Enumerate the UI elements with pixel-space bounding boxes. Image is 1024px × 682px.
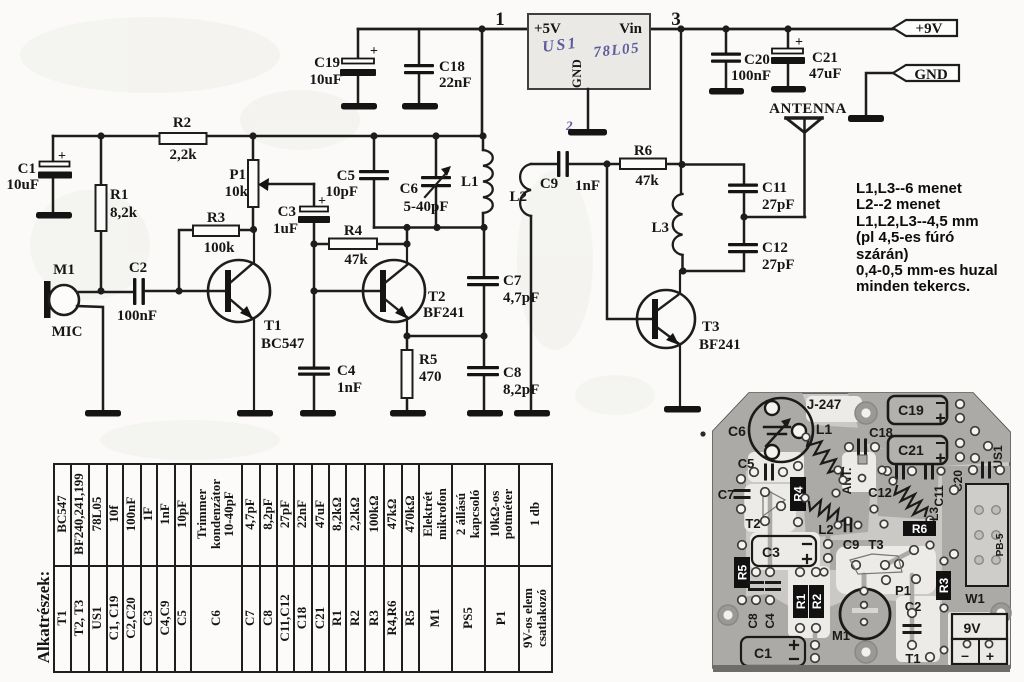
table cell ref P1	[484, 565, 518, 671]
svg-text:C11: C11	[932, 485, 946, 507]
PCB mounting hole near 9V	[991, 603, 1011, 623]
PCB capacitor C5	[766, 465, 773, 479]
ground US1	[568, 129, 607, 136]
table cell value 100nF	[122, 463, 140, 565]
table cell value 8,2kohm	[328, 463, 345, 565]
transistor T3 BF241	[637, 290, 695, 348]
terminal +9V	[893, 20, 957, 36]
svg-text:M1: M1	[53, 262, 75, 278]
svg-text:C7: C7	[503, 273, 522, 289]
node C11/C12/antenna junction	[740, 213, 747, 220]
resistor R5	[406, 336, 409, 350]
svg-text:–: –	[961, 647, 969, 663]
svg-text:C5: C5	[337, 168, 355, 184]
svg-text:C8: C8	[503, 365, 521, 381]
table row divider	[53, 565, 551, 567]
coil winding notes text	[856, 181, 1024, 296]
table cell value 10f	[106, 463, 122, 565]
svg-text:+: +	[370, 44, 378, 59]
wire US1 GND pin	[587, 89, 590, 130]
table cell ref C8	[259, 565, 276, 671]
svg-text:C2: C2	[129, 260, 147, 276]
PCB capacitor C3 footprint	[752, 536, 816, 566]
ground T1 emitter	[237, 410, 273, 417]
PCB scattered pads	[870, 505, 878, 513]
wire +5V lower rail	[53, 135, 483, 138]
PCB microphone M1 footprint	[840, 589, 890, 639]
ground L2	[514, 410, 550, 417]
table cell value 47kohm	[383, 463, 401, 565]
node T2 base junction	[310, 287, 317, 294]
wire M1 to ground	[77, 306, 103, 410]
svg-text:+: +	[795, 35, 803, 50]
svg-text:C1: C1	[18, 161, 36, 177]
svg-text:C12: C12	[762, 240, 788, 256]
potentiometer P1	[249, 132, 256, 139]
svg-text:T2: T2	[428, 289, 446, 305]
svg-text:L1: L1	[461, 174, 479, 190]
table cell value 27pF	[276, 463, 293, 565]
node T2 emitter junction	[403, 332, 410, 339]
stray mark left of board	[700, 431, 705, 436]
svg-text:5-40pF: 5-40pF	[404, 199, 449, 215]
inductor L3	[673, 194, 683, 255]
wire C5/C6/L1 bottom bus	[374, 226, 484, 229]
wire T2 emitter to C7/C8	[407, 335, 484, 338]
svg-text:C20: C20	[744, 52, 770, 68]
svg-text:R5: R5	[419, 352, 437, 368]
ground C8	[467, 410, 503, 417]
node 1	[478, 25, 485, 32]
svg-text:47uF: 47uF	[809, 66, 842, 82]
table cell value 22nF	[293, 463, 311, 565]
wire +5V top rail from C19 corner to US1 input	[358, 28, 528, 31]
svg-text:T3: T3	[868, 537, 883, 552]
table cell ref US1	[88, 565, 106, 671]
table cell ref C5	[174, 565, 190, 671]
PCB board outline	[713, 393, 1010, 668]
svg-text:J-247: J-247	[807, 397, 842, 412]
svg-text:T3: T3	[702, 319, 720, 335]
table cell value Elektret mikrofon	[418, 463, 451, 565]
wire Vin rail from US1 to +9V terminal	[650, 28, 895, 31]
resistor R3	[179, 230, 193, 291]
svg-text:L3: L3	[651, 220, 669, 236]
svg-text:C18: C18	[439, 59, 465, 75]
table cell value 2 allasu kapcsolo	[451, 463, 484, 565]
PCB resistor R2	[809, 585, 824, 618]
svg-text:BF241: BF241	[423, 305, 465, 321]
svg-text:R1: R1	[110, 187, 128, 203]
svg-text:1nF: 1nF	[337, 380, 362, 396]
node R1/M1/C2 junction	[97, 287, 104, 294]
svg-text:P1: P1	[229, 167, 246, 183]
svg-text:C6: C6	[728, 423, 746, 439]
svg-text:C9: C9	[843, 537, 860, 552]
svg-text:R4: R4	[344, 223, 363, 239]
table cell value 2,2kohm	[345, 463, 364, 565]
svg-text:10k: 10k	[225, 184, 249, 200]
transistor T1 BC547	[208, 260, 270, 322]
PCB trimmer C6 footprint	[749, 398, 813, 462]
svg-text:+9V: +9V	[916, 21, 943, 37]
node P1/R3/T1 collector junction	[250, 226, 257, 233]
voltage regulator US1 78L05	[528, 14, 650, 89]
table cell value 8,2pF	[259, 463, 276, 565]
svg-text:1: 1	[495, 9, 505, 30]
table cell value 10pF	[174, 463, 190, 565]
svg-text:10pF: 10pF	[325, 184, 358, 200]
PCB trace segments	[740, 479, 745, 600]
svg-text:C11: C11	[762, 180, 787, 196]
svg-text:C19: C19	[898, 402, 924, 418]
svg-text:C3: C3	[762, 544, 780, 560]
table cell ref R4,R6	[383, 565, 401, 671]
table cell ref R1	[328, 565, 345, 671]
PCB copper pour patches	[713, 393, 812, 472]
svg-text:3: 3	[671, 9, 681, 30]
capacitor C11	[728, 184, 758, 187]
table cell value Trimmer kondenzator 10-40pF	[190, 463, 241, 565]
PCB capacitor C18	[859, 440, 866, 454]
capacitor C9	[531, 163, 557, 166]
svg-text:10uF: 10uF	[6, 177, 39, 193]
PCB capacitor C1 footprint	[741, 637, 805, 666]
table cell ref R5	[401, 565, 418, 671]
ground M1	[85, 410, 121, 417]
inductor L2	[520, 164, 531, 216]
PCB inductor L3	[895, 486, 928, 516]
capacitor C21	[784, 25, 791, 32]
table cell ref C1, C19	[106, 565, 122, 671]
capacitor C1	[52, 136, 55, 162]
PCB resistor R6	[903, 521, 936, 536]
svg-text:1uF: 1uF	[273, 221, 298, 237]
svg-text:R3: R3	[207, 210, 225, 226]
svg-text:L2: L2	[509, 189, 527, 205]
ground C20	[709, 88, 744, 95]
table cell value 10kohm-os potmeter	[484, 463, 518, 565]
table cell ref C11,C12	[276, 565, 293, 671]
table cell ref C3	[140, 565, 156, 671]
capacitor C2	[133, 278, 136, 305]
svg-text:470: 470	[419, 369, 442, 385]
svg-text:100k: 100k	[204, 240, 236, 256]
capacitor C3	[313, 184, 316, 207]
svg-text:L2: L2	[818, 522, 833, 537]
terminal GND	[893, 65, 959, 81]
PCB mounting hole top	[855, 402, 877, 424]
table cell ref PS5	[451, 565, 484, 671]
table cell ref C18	[293, 565, 311, 671]
table cell ref C21	[311, 565, 328, 671]
svg-text:R1: R1	[794, 594, 808, 610]
resistor R1	[97, 132, 104, 139]
svg-text:C9: C9	[540, 176, 558, 192]
svg-text:27pF: 27pF	[762, 257, 795, 273]
svg-text:R6: R6	[634, 143, 653, 159]
ground of GND terminal	[848, 115, 884, 122]
svg-text:T1: T1	[905, 651, 920, 666]
table cell value 1 db	[518, 463, 551, 565]
capacitor C12	[743, 217, 746, 243]
table cell value 78L05	[88, 463, 106, 565]
svg-text:L3: L3	[927, 507, 941, 521]
table cell ref 9V-os elem csatlakozo	[518, 565, 551, 671]
svg-text:C19: C19	[314, 55, 340, 71]
PCB capacitor C11	[926, 464, 933, 478]
svg-text:US1: US1	[991, 445, 1005, 469]
table cell ref M1	[418, 565, 451, 671]
svg-text:8,2k: 8,2k	[110, 205, 138, 221]
svg-text:L1: L1	[816, 421, 833, 437]
PCB inductor L1	[807, 437, 843, 477]
node R3 base junction	[175, 287, 182, 294]
svg-text:P1: P1	[895, 583, 911, 598]
svg-text:C8: C8	[746, 613, 760, 629]
svg-text:100nF: 100nF	[117, 308, 157, 324]
node R4/T2 collector junction	[403, 240, 410, 247]
ground C18	[402, 103, 438, 110]
microphone M1	[44, 281, 51, 318]
svg-text:R2: R2	[810, 594, 824, 610]
PCB bottom edge shadow	[713, 665, 1010, 672]
svg-text:8,2pF: 8,2pF	[503, 382, 539, 398]
PCB inductor L2	[809, 500, 844, 524]
svg-text:C4: C4	[763, 613, 777, 629]
svg-text:1nF: 1nF	[575, 178, 600, 194]
table cell ref C6	[190, 565, 241, 671]
P1 wiper arrow	[266, 183, 314, 186]
wire T3 base	[607, 164, 652, 319]
svg-text:C3: C3	[278, 204, 296, 220]
svg-text:4,7pF: 4,7pF	[503, 290, 539, 306]
wire node1 down to lower rail	[481, 29, 484, 136]
svg-text:9V: 9V	[963, 620, 981, 636]
svg-text:2,2k: 2,2k	[169, 147, 197, 163]
trimmer capacitor C6	[432, 132, 439, 139]
svg-text:M1: M1	[832, 628, 850, 643]
node C3/R4 junction	[310, 240, 317, 247]
node C7/C8 junction	[480, 332, 487, 339]
svg-text:R6: R6	[912, 522, 928, 536]
PCB clear areas	[748, 452, 804, 482]
svg-text:R3: R3	[937, 578, 951, 594]
scan mottling	[20, 17, 655, 460]
capacitor C7	[483, 228, 486, 277]
parts table "Alkatrészek"	[53, 463, 553, 673]
svg-text:C21: C21	[898, 442, 924, 458]
capacitor C5	[370, 132, 377, 139]
svg-text:BC547: BC547	[261, 336, 305, 352]
PCB mounting hole bottom-left	[718, 605, 738, 625]
PCB resistor R3	[936, 571, 951, 600]
node C9/R6/T3 base junction	[603, 160, 610, 167]
wire tank top to C11	[682, 165, 744, 185]
PCB capacitor C19 footprint	[888, 396, 947, 424]
svg-text:C4: C4	[337, 363, 356, 379]
PCB resistor R5	[734, 557, 750, 588]
svg-text:10uF: 10uF	[309, 72, 342, 88]
PCB capacitor C21 footprint	[888, 436, 947, 464]
capacitor C18	[418, 29, 421, 64]
PCB capacitor C9	[845, 519, 851, 531]
table cell value 47uF	[311, 463, 328, 565]
PCB switch PS5 footprint	[966, 484, 1008, 586]
svg-text:W1: W1	[965, 591, 985, 606]
inductor L1	[479, 132, 486, 139]
svg-text:27pF: 27pF	[762, 197, 795, 213]
svg-text:R5: R5	[735, 565, 749, 581]
svg-text:R2: R2	[173, 115, 191, 131]
capacitor C8	[483, 336, 486, 366]
PCB mounting hole bottom-middle	[855, 641, 877, 663]
table cell value 1F	[140, 463, 156, 565]
PCB capacitor C2	[904, 626, 920, 633]
table cell value 100kohm	[364, 463, 383, 565]
table cell ref C2,C20	[122, 565, 140, 671]
ground C1	[36, 212, 72, 219]
svg-text:C21: C21	[812, 50, 838, 66]
PCB resistor R4	[790, 477, 806, 511]
ground R5	[390, 410, 426, 417]
table cell ref R2	[345, 565, 364, 671]
svg-text:100nF: 100nF	[731, 68, 771, 84]
table cell ref C4,C9	[156, 565, 174, 671]
wire C3 to T2 base and C4	[313, 244, 316, 367]
svg-text:MIC: MIC	[52, 324, 83, 340]
svg-text:47k: 47k	[344, 252, 368, 268]
svg-text:C12: C12	[868, 485, 892, 500]
wire antenna feed	[744, 216, 805, 219]
ground T3 emitter	[664, 406, 701, 413]
resistor R6	[607, 163, 620, 166]
table cell value 4,7pF	[241, 463, 259, 565]
table cell ref T1	[54, 565, 70, 671]
transistor T2 BF241	[314, 290, 380, 293]
capacitor C20	[722, 25, 729, 32]
PCB resistor R1	[793, 585, 808, 618]
wire GND terminal to ground	[866, 73, 893, 115]
table cell ref R3	[364, 565, 383, 671]
node L3/C12/T3 collector junction	[679, 267, 686, 274]
svg-text:ANTENNA: ANTENNA	[769, 101, 847, 117]
PCB capacitors C8 C4	[750, 583, 763, 590]
svg-text:Vin: Vin	[619, 21, 642, 37]
svg-text:C1: C1	[754, 645, 772, 661]
table cell ref T2, T3	[70, 565, 88, 671]
svg-text:47k: 47k	[635, 173, 659, 189]
capacitor C4	[298, 367, 330, 370]
table cell value BC547	[54, 463, 70, 565]
table cell value BF240,241,199	[70, 463, 88, 565]
svg-text:T2: T2	[745, 516, 760, 531]
wire M1 output	[79, 291, 133, 294]
antenna symbol	[786, 116, 822, 120]
wire node3 down to tank	[680, 29, 682, 194]
svg-text:+: +	[58, 149, 66, 164]
svg-text:T1: T1	[264, 318, 282, 334]
svg-text:C7: C7	[718, 487, 735, 502]
svg-text:C6: C6	[400, 181, 419, 197]
table cell value 1nF	[156, 463, 174, 565]
svg-text:BF241: BF241	[699, 337, 741, 353]
resistor R4	[314, 243, 329, 246]
svg-text:+: +	[986, 648, 994, 664]
node R6/L3 junction	[678, 161, 685, 168]
svg-text:GND: GND	[914, 67, 948, 83]
svg-text:+5V: +5V	[534, 21, 561, 37]
capacitor C19	[357, 29, 360, 59]
node 3	[677, 25, 684, 32]
ground C4	[300, 410, 336, 417]
svg-text:PB-5: PB-5	[995, 533, 1006, 556]
ground C21	[771, 86, 806, 93]
table cell value 470kohm	[401, 463, 418, 565]
PCB capacitor C12	[897, 464, 904, 478]
table header label Alkatrészek	[34, 566, 54, 668]
table column lines	[70, 463, 72, 671]
table cell ref C7	[241, 565, 259, 671]
PCB capacitor C7	[735, 491, 749, 498]
PCB battery connector 9V	[952, 614, 1007, 639]
PCB capacitor C20	[983, 463, 990, 477]
PCB transistor T2 pads	[763, 488, 785, 516]
resistor R2	[160, 133, 207, 144]
svg-text:22nF: 22nF	[439, 75, 472, 91]
svg-text:GND: GND	[570, 59, 584, 88]
ground C19	[341, 103, 377, 110]
